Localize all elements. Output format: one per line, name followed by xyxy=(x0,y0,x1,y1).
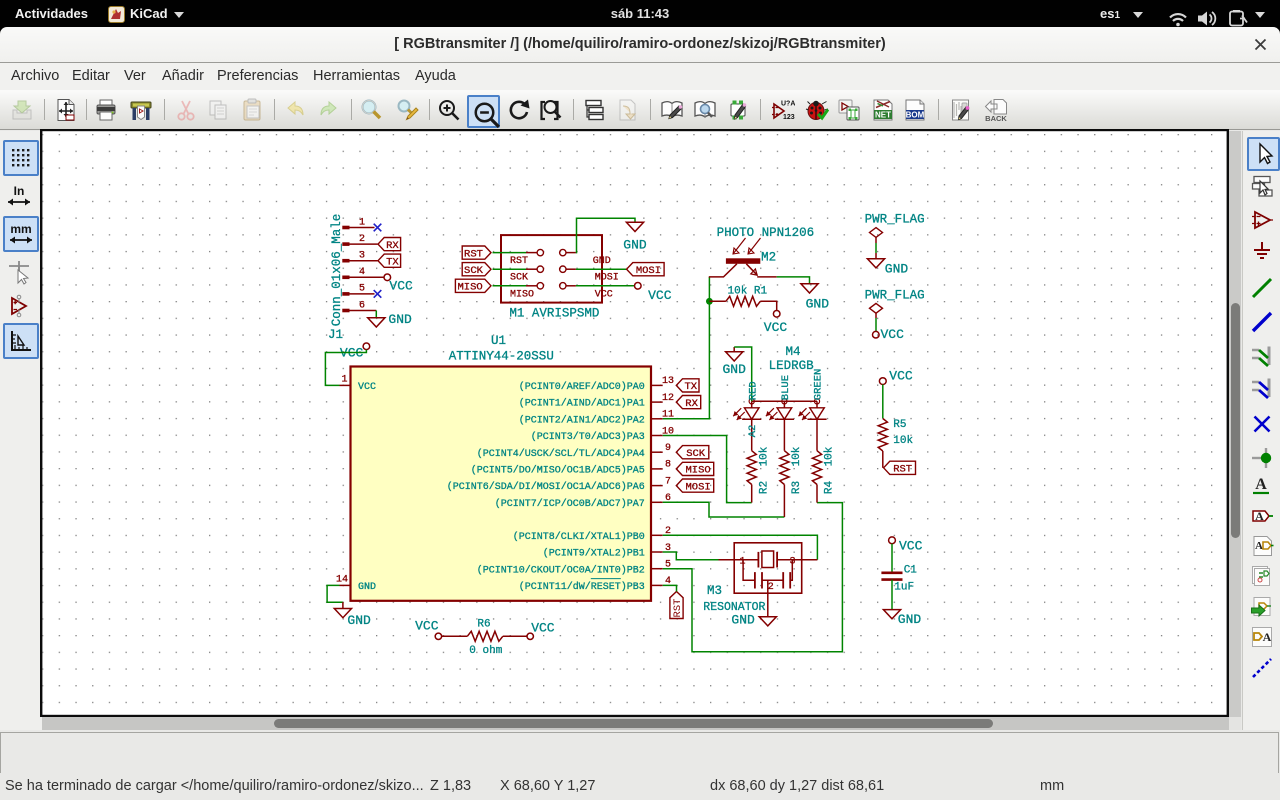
power flag PWR_FLAG on GND xyxy=(865,213,925,254)
no-connect on J1 pin 1 xyxy=(374,224,382,232)
svg-text:M4: M4 xyxy=(786,345,801,359)
svg-text:7: 7 xyxy=(665,476,671,487)
wire VCC to C1 xyxy=(891,544,893,573)
U1 pin 1 VCC xyxy=(340,375,377,394)
U1 pin 14 GND xyxy=(336,575,376,594)
svg-text:GND: GND xyxy=(723,362,747,377)
M3 crystal body xyxy=(762,551,774,568)
global label TX xyxy=(378,254,401,268)
svg-text:In: In xyxy=(14,184,25,198)
svg-text:RST: RST xyxy=(672,599,684,618)
svg-text:(PCINT0/AREF/ADC0)PA0: (PCINT0/AREF/ADC0)PA0 xyxy=(519,381,645,393)
svg-text:GND: GND xyxy=(885,262,909,277)
U1 pin 5 (PCINT10/CKOUT/OC0A/INT0)PB2 xyxy=(477,560,671,577)
ground GND under PWR_FLAG xyxy=(867,253,908,277)
svg-text:MOSI: MOSI xyxy=(595,273,619,284)
svg-text:C1: C1 xyxy=(904,565,918,577)
LED array M4 LEDRGB xyxy=(752,345,817,401)
ground GND at U1 pin 14 xyxy=(334,602,371,628)
svg-text:3: 3 xyxy=(359,251,365,262)
svg-text:GND: GND xyxy=(358,582,376,593)
svg-text:10k: 10k xyxy=(758,446,770,466)
wire U1 PA3 (pin 10) to R2 xyxy=(663,436,752,503)
svg-text:10k: 10k xyxy=(791,446,803,466)
global label SCK at U1 PA4 xyxy=(676,446,709,460)
U1 pin 8 (PCINT5/DO/MISO/OC1B/ADC5)PA5 xyxy=(471,460,671,477)
M1 left pin MISO xyxy=(493,283,544,301)
svg-text:10k: 10k xyxy=(824,446,836,466)
wire U1 PA2 (pin 11) to phototransistor node xyxy=(663,277,710,419)
wire U1 PB1 (pin 3) to resonator pin 1 xyxy=(663,552,719,560)
global label TX at U1 PA0 xyxy=(676,379,699,393)
svg-text:2: 2 xyxy=(768,582,774,593)
LED GREEN element of M4 xyxy=(799,369,827,451)
svg-text:GND: GND xyxy=(593,256,611,267)
power VCC at M1 xyxy=(635,283,672,304)
M1 right pin GND xyxy=(560,249,611,267)
svg-text:VCC: VCC xyxy=(358,382,376,393)
svg-text:RX: RX xyxy=(685,398,698,410)
wire M1 VCC pin to power xyxy=(576,285,635,287)
global label RST at M1 xyxy=(462,246,491,260)
svg-text:12: 12 xyxy=(662,393,674,404)
svg-text:mm: mm xyxy=(10,222,31,236)
svg-text:J1: J1 xyxy=(328,328,343,342)
LED BLUE element of M4 xyxy=(766,375,794,451)
svg-text:PHOTO NPN1206: PHOTO NPN1206 xyxy=(717,226,815,240)
svg-text:4: 4 xyxy=(359,267,365,278)
junction node at R1 / M2 emitter xyxy=(706,298,713,305)
wire U1 PB0 (pin 2) to resonator pin 3 xyxy=(663,535,818,559)
wire M2 collector to GND xyxy=(777,277,810,284)
LED RED element of M4 xyxy=(733,381,761,450)
svg-text:R3: R3 xyxy=(791,481,803,494)
wire M1 GND pin up to ground xyxy=(576,218,635,252)
power VCC right of R6 xyxy=(527,620,555,639)
power VCC at U1 pin 1 xyxy=(340,343,370,361)
global label MISO at U1 PA5 xyxy=(676,462,713,476)
svg-text:SCK: SCK xyxy=(464,265,484,277)
power VCC left of R6 xyxy=(415,619,441,640)
svg-text:RST: RST xyxy=(510,256,528,267)
svg-text:123: 123 xyxy=(783,114,795,121)
global label RST at R5 xyxy=(884,461,916,475)
wire U1 PB2 (pin 5) to R4 xyxy=(663,503,843,652)
ground GND at M4 common xyxy=(723,347,747,377)
svg-text:9: 9 xyxy=(665,443,671,454)
svg-text:R5: R5 xyxy=(893,419,906,431)
svg-text:(PCINT4/USCK/SCL/TL/ADC4)PA4: (PCINT4/USCK/SCL/TL/ADC4)PA4 xyxy=(477,448,645,460)
phototransistor M2 PHOTO NPN1206 xyxy=(709,226,814,277)
U1 pin 3 (PCINT9/XTAL2)PB1 xyxy=(543,543,671,560)
global label RX xyxy=(378,238,401,252)
svg-text:A: A xyxy=(1262,630,1271,644)
svg-text:10k R1: 10k R1 xyxy=(728,285,768,297)
M3 crystal pin 3 xyxy=(777,552,817,568)
svg-text:R2: R2 xyxy=(758,481,770,494)
M3 pin 2 to ground xyxy=(767,580,769,616)
wire U1 pin 14 to GND xyxy=(327,585,343,602)
U1 pin 13 (PCINT0/AREF/ADC0)PA0 xyxy=(519,376,674,393)
resistor R4 10k xyxy=(812,446,835,502)
global label MISO at M1 xyxy=(455,279,491,293)
svg-text:VCC: VCC xyxy=(531,620,555,635)
global label SCK at M1 xyxy=(462,263,491,277)
svg-text:VCC: VCC xyxy=(389,279,413,294)
svg-text:TX: TX xyxy=(684,381,697,393)
svg-text:(PCINT9/XTAL2)PB1: (PCINT9/XTAL2)PB1 xyxy=(543,548,645,560)
svg-text:6: 6 xyxy=(359,300,365,311)
svg-text:BACK: BACK xyxy=(985,114,1007,122)
U1 pin 7 (PCINT6/SDA/DI/MOSI/OC1A/ADC6)PA6 xyxy=(447,476,671,493)
U1 pin 2 (PCINT8/CLKI/XTAL1)PB0 xyxy=(513,526,671,543)
U1 pin 4 (PCINT11/dW/RESET)PB3 xyxy=(519,576,671,593)
svg-text:GND: GND xyxy=(806,296,830,311)
U1 pin 12 (PCINT1/AIND/ADC1)PA1 xyxy=(519,393,674,410)
svg-text:RST: RST xyxy=(893,464,912,476)
svg-text:GND: GND xyxy=(731,613,755,628)
global label MOSI at M1 xyxy=(627,263,665,277)
svg-text:1: 1 xyxy=(341,375,347,386)
wire U1 PA7 (pin 6) to R3 xyxy=(663,502,785,517)
global label MOSI at U1 PA6 xyxy=(676,479,713,493)
svg-text:GND: GND xyxy=(898,612,922,627)
svg-text:ATTINY44-20SSU: ATTINY44-20SSU xyxy=(449,350,554,364)
svg-text:(PCINT7/ICP/OC0B/ADC7)PA7: (PCINT7/ICP/OC0B/ADC7)PA7 xyxy=(495,498,645,510)
power VCC at R1 xyxy=(764,311,788,335)
ground GND at J1 pin 6 xyxy=(368,312,412,327)
M1 left pin RST xyxy=(493,249,544,267)
pin A2 label of M4 xyxy=(747,425,759,438)
resonator M3 body xyxy=(703,543,801,614)
resistor R2 10k xyxy=(747,446,770,502)
svg-text:SCK: SCK xyxy=(510,273,528,284)
svg-text:GREEN: GREEN xyxy=(813,369,825,401)
svg-text:M3: M3 xyxy=(707,584,722,598)
connector J1 Conn_01x06_Male xyxy=(328,214,384,342)
svg-text:M1 AVRISPSMD: M1 AVRISPSMD xyxy=(509,307,599,321)
svg-text:VCC: VCC xyxy=(764,320,788,335)
svg-text:MISO: MISO xyxy=(685,465,710,477)
power VCC at R5 xyxy=(879,369,913,385)
wire GND to M4 common bus xyxy=(734,347,752,401)
svg-text:VCC: VCC xyxy=(881,327,905,342)
resistor R6 0 ohm xyxy=(442,619,527,657)
svg-text:(PCINT3/T0/ADC3)PA3: (PCINT3/T0/ADC3)PA3 xyxy=(531,431,645,443)
svg-text:VCC: VCC xyxy=(415,619,439,634)
resistor R1 10k xyxy=(709,285,776,310)
svg-text:U?A: U?A xyxy=(781,101,795,108)
M3 internal capacitors xyxy=(743,560,792,593)
svg-text:VCC: VCC xyxy=(899,539,923,554)
wire C1 to GND xyxy=(891,580,893,610)
svg-text:GND: GND xyxy=(623,238,647,253)
svg-text:VCC: VCC xyxy=(889,369,913,384)
svg-text:GND: GND xyxy=(388,312,412,327)
svg-text:MISO: MISO xyxy=(510,289,534,300)
wire J1 pin 6 to GND xyxy=(375,311,377,318)
wire VCC to U1 pin 1 xyxy=(325,350,366,386)
svg-text:(PCINT2/AIN1/ADC2)PA2: (PCINT2/AIN1/ADC2)PA2 xyxy=(519,414,645,426)
svg-text:0 ohm: 0 ohm xyxy=(469,645,502,657)
svg-text:MOSI: MOSI xyxy=(636,265,661,277)
svg-text:A: A xyxy=(1255,509,1264,523)
ground GND at M3 xyxy=(731,613,776,628)
resistor R3 10k xyxy=(780,446,803,517)
svg-text:BOM: BOM xyxy=(906,111,925,120)
svg-text:14: 14 xyxy=(336,575,348,586)
svg-text:BLUE: BLUE xyxy=(780,375,792,400)
svg-text:LEDRGB: LEDRGB xyxy=(769,359,815,373)
power VCC at J1 pin 4 xyxy=(384,274,413,294)
U1 pin 10 (PCINT3/T0/ADC3)PA3 xyxy=(531,426,674,443)
svg-text:U1: U1 xyxy=(491,334,506,348)
svg-text:RST: RST xyxy=(464,248,483,260)
no-connect on J1 pin 5 xyxy=(374,290,382,298)
svg-text:A: A xyxy=(1255,476,1267,493)
svg-text:(PCINT1/AIND/ADC1)PA1: (PCINT1/AIND/ADC1)PA1 xyxy=(519,398,645,410)
global label RST at U1 PB3 (vertical) xyxy=(670,592,684,619)
capacitor C1 1uF xyxy=(881,565,917,594)
svg-text:RED: RED xyxy=(747,381,759,400)
power VCC at C1 xyxy=(889,537,923,554)
svg-text:8: 8 xyxy=(665,460,671,471)
U1 pin 11 (PCINT2/AIN1/ADC2)PA2 xyxy=(519,410,674,427)
ground GND at C1 xyxy=(883,610,921,627)
svg-text:1: 1 xyxy=(359,217,365,228)
svg-text:R4: R4 xyxy=(824,481,836,495)
svg-text:PWR_FLAG: PWR_FLAG xyxy=(865,213,925,227)
svg-text:(PCINT10/CKOUT/OC0A/INT0)PB2: (PCINT10/CKOUT/OC0A/INT0)PB2 xyxy=(477,564,645,576)
M1 right pin VCC xyxy=(560,283,613,301)
svg-text:MISO: MISO xyxy=(457,282,482,294)
overline on RESET of U1 pin 4 xyxy=(591,578,621,580)
svg-text:(PCINT11/dW/RESET)PB3: (PCINT11/dW/RESET)PB3 xyxy=(519,581,645,593)
IC U1 ATTINY44-20SSU body xyxy=(351,334,652,601)
svg-text:(PCINT5/DO/MISO/OC1B/ADC5)PA5: (PCINT5/DO/MISO/OC1B/ADC5)PA5 xyxy=(471,465,645,477)
svg-text:NET: NET xyxy=(875,111,891,120)
svg-text:A: A xyxy=(1255,540,1263,552)
power flag PWR_FLAG on VCC xyxy=(865,289,925,332)
M1 right pin MOSI xyxy=(560,266,619,284)
wire M1 MOSI pin to label xyxy=(576,268,627,270)
power VCC under PWR_FLAG xyxy=(873,327,905,342)
svg-text:GND: GND xyxy=(347,613,371,628)
svg-text:13: 13 xyxy=(662,376,674,387)
svg-text:R6: R6 xyxy=(477,619,490,631)
U1 pin 9 (PCINT4/USCK/SCL/TL/ADC4)PA4 xyxy=(477,443,671,460)
svg-text:MOSI: MOSI xyxy=(685,481,710,493)
svg-text:2: 2 xyxy=(359,234,365,245)
wire VCC to R5 xyxy=(882,385,884,419)
svg-text:RX: RX xyxy=(386,240,399,252)
M3 crystal pin 1 xyxy=(719,552,759,568)
svg-text:Conn_01x06_Male: Conn_01x06_Male xyxy=(330,214,344,327)
svg-text:TX: TX xyxy=(386,256,399,268)
svg-text:(PCINT6/SDA/DI/MOSI/OC1A/ADC6): (PCINT6/SDA/DI/MOSI/OC1A/ADC6)PA6 xyxy=(447,481,645,493)
svg-text:5: 5 xyxy=(359,284,365,295)
svg-text:SCK: SCK xyxy=(686,448,706,460)
U1 pin 6 (PCINT7/ICP/OC0B/ADC7)PA7 xyxy=(495,493,671,510)
svg-text:VCC: VCC xyxy=(648,288,672,303)
svg-text:PWR_FLAG: PWR_FLAG xyxy=(865,289,925,303)
svg-text:VCC: VCC xyxy=(595,289,613,300)
connector M1 AVRISPSMD body xyxy=(501,235,602,320)
ground GND at M1 xyxy=(623,222,647,252)
M1 left pin SCK xyxy=(493,266,544,284)
svg-text:1uF: 1uF xyxy=(894,581,914,593)
svg-text:M2: M2 xyxy=(761,250,776,264)
global label RX at U1 PA1 xyxy=(676,396,700,410)
svg-text:(PCINT8/CLKI/XTAL1)PB0: (PCINT8/CLKI/XTAL1)PB0 xyxy=(513,531,645,543)
resistor R5 10k xyxy=(878,419,913,468)
svg-text:10k: 10k xyxy=(893,435,913,447)
wire U1 pin 4 to RST label xyxy=(663,585,677,591)
svg-text:A2: A2 xyxy=(747,425,759,438)
ground GND at M2 collector xyxy=(801,284,829,312)
